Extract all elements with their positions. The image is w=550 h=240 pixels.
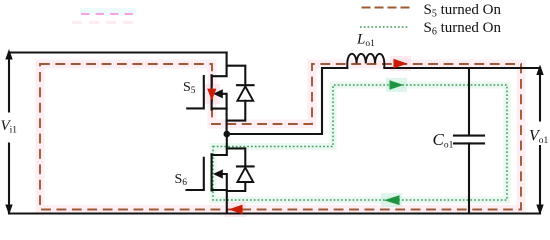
mosfet S6 source lead (212, 190, 227, 214)
diode D6 cathode bar (237, 165, 254, 167)
diode D6 top lead (227, 148, 246, 166)
mosfet S6 arrowhead (213, 169, 223, 178)
stray faint pink dashes artifact (72, 21, 136, 24)
red arrow right on top red path (394, 59, 408, 69)
Vo1 port line (536, 65, 543, 216)
S5 drain wire from top rail (212, 53, 227, 77)
green arrow right on top green path (390, 80, 404, 89)
node: switch node dot (224, 131, 231, 138)
mosfet S5 channel bar (211, 75, 213, 109)
glow behind red arrow top (390, 56, 411, 71)
red arrow down through S5 (207, 89, 216, 101)
bottom rail wire (9, 212, 540, 214)
Vi1 port line (5, 49, 12, 215)
green dotted loop glow (213, 85, 507, 200)
mosfet S5 source lead (212, 109, 227, 134)
diode D6 bottom lead (227, 182, 246, 191)
glow behind green arrow top (386, 78, 407, 92)
inductor Lo1 (347, 54, 384, 68)
S6 drain wire from node (212, 134, 227, 155)
legend red dashed sample (362, 7, 411, 9)
mosfet S6 source arrow lead (221, 174, 227, 190)
green dotted loop (S6 on path) (213, 85, 507, 200)
glow behind red arrow S5 (203, 84, 220, 104)
capacitor Co1 top lead (468, 68, 470, 135)
red dashed loop glow (40, 64, 521, 210)
red dashed loop (S5 on path) (40, 64, 521, 210)
diode D6 triangle (237, 168, 253, 182)
stray magenta dashes artifact (81, 13, 133, 15)
mosfet S6 gate (187, 158, 204, 190)
diode D5 top lead (227, 66, 246, 86)
glow behind green arrow bottom (381, 193, 402, 207)
diode D5 bottom lead (227, 101, 246, 121)
legend green dotted sample (360, 26, 408, 28)
green arrow left on bottom green path (384, 195, 400, 205)
capacitor Co1 plates (454, 136, 484, 144)
glow behind red arrow bottom (225, 202, 246, 217)
mosfet S5 source arrow lead (221, 94, 227, 109)
mosfet S6 channel bar (211, 154, 213, 190)
mosfet S5 arrowhead (213, 89, 223, 98)
diode D5 cathode bar (237, 84, 254, 86)
mosfet S5 gate (187, 76, 204, 108)
switch node wire to inductor (227, 68, 347, 134)
diode D5 triangle (237, 86, 253, 100)
red arrow left on bottom red path (229, 205, 243, 215)
wire inductor to Vo1 (384, 67, 540, 69)
capacitor Co1 bottom lead (468, 143, 470, 213)
top rail wire (9, 51, 227, 53)
stray cyan haze artifact (80, 8, 136, 13)
